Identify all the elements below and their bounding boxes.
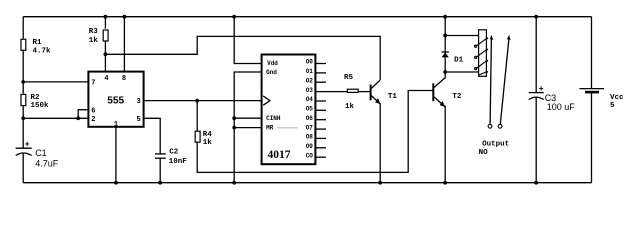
svg-text:C1: C1 <box>35 148 47 158</box>
node T2 emitter ground rail <box>443 181 447 185</box>
wire O0 stub <box>315 63 326 65</box>
node Gnd ground rail <box>232 181 236 185</box>
wire pin2 <box>23 117 88 119</box>
wire O8 stub <box>315 137 326 139</box>
svg-text:R3: R3 <box>89 28 99 36</box>
svg-text:555: 555 <box>107 95 124 106</box>
svg-text:R5: R5 <box>344 74 354 82</box>
wire MR to ground line <box>234 127 261 129</box>
svg-text:R1: R1 <box>33 39 43 47</box>
svg-text:T2: T2 <box>452 93 462 101</box>
svg-text:C2: C2 <box>169 149 179 157</box>
wire C2 to ground rail <box>159 158 161 183</box>
wire O6 stub <box>315 119 326 121</box>
wire pin6 <box>78 110 88 119</box>
wire R3 to pin4 <box>104 41 106 72</box>
svg-text:4: 4 <box>104 75 108 83</box>
capacitor C1 <box>16 141 59 169</box>
wire reset node to T1 collector <box>105 36 380 80</box>
pin clock chevron <box>263 96 270 105</box>
svg-text:1k: 1k <box>89 37 99 45</box>
wire Gnd of 4017 to ground rail <box>234 72 261 183</box>
svg-text:MR: MR <box>266 124 274 131</box>
node coil bottom / T2 collector junction <box>443 70 447 74</box>
wire O9 stub <box>315 147 326 149</box>
node CINH junction <box>232 116 236 120</box>
node C3 ground rail <box>534 181 538 185</box>
wire R2 to C1 <box>22 106 24 148</box>
resistor R1 <box>21 39 51 56</box>
wire O1 stub <box>315 72 326 74</box>
svg-text:4.7uF: 4.7uF <box>35 159 59 169</box>
svg-text:4017: 4017 <box>268 149 291 161</box>
wire R5 to T1 base <box>359 91 370 93</box>
svg-text:8: 8 <box>122 75 126 83</box>
node R1/R2/pin7 junction <box>21 80 25 84</box>
relay coil K1 <box>474 30 488 77</box>
svg-text:O1: O1 <box>306 68 314 75</box>
wire CINH to ground line <box>234 117 261 119</box>
op-amp U2 4017 counter box <box>262 55 316 165</box>
resistor R5 <box>344 74 358 111</box>
node C2 ground rail <box>158 181 162 185</box>
wire O5 stub <box>315 109 326 111</box>
node pin6 branch <box>76 116 80 120</box>
svg-text:O0: O0 <box>306 59 314 66</box>
wire relay/diode branch from top rail <box>444 17 446 72</box>
node MR junction <box>232 126 236 130</box>
capacitor C3 <box>529 17 576 183</box>
wire O2 stub <box>315 81 326 83</box>
resistor R3 <box>89 17 108 46</box>
svg-text:2: 2 <box>91 116 95 124</box>
node pin8 top rail <box>123 15 127 19</box>
battery Vcc <box>580 17 625 183</box>
svg-text:R4: R4 <box>203 131 213 139</box>
wire left column top segment <box>22 17 24 39</box>
svg-text:CINH: CINH <box>266 115 281 122</box>
svg-text:Output: Output <box>482 141 509 149</box>
svg-text:O2: O2 <box>306 77 314 84</box>
svg-text:3: 3 <box>137 98 141 106</box>
node Vdd top rail <box>232 15 236 19</box>
wire top supply rail <box>23 16 591 18</box>
relay contact right (blade) <box>498 35 510 128</box>
node R3/pin4/reset junction <box>104 52 108 56</box>
wire coil bottom <box>445 71 479 73</box>
node Output NO label <box>479 141 510 157</box>
svg-text:T1: T1 <box>388 93 398 101</box>
node coil top junction <box>443 34 447 38</box>
wire pin1 to ground <box>115 127 117 183</box>
svg-text:1k: 1k <box>203 139 213 147</box>
wire T2 collector up <box>444 72 446 79</box>
wire Vdd supply to 4017 <box>234 17 261 64</box>
wire T2 emitter to ground <box>444 106 446 183</box>
svg-text:6: 6 <box>91 108 95 116</box>
svg-text:1k: 1k <box>345 103 355 111</box>
wire R4 to T2 base <box>197 91 432 173</box>
svg-text:O4: O4 <box>306 96 314 103</box>
op-amp U1 555 timer box <box>88 72 143 129</box>
svg-text:O7: O7 <box>306 124 314 131</box>
wire pin8 to rail <box>123 17 125 72</box>
svg-text:5: 5 <box>610 102 615 110</box>
node R4 branch on pin3 line <box>195 99 199 103</box>
wire coil top <box>445 35 479 37</box>
wire pin5 to C2 <box>144 118 161 154</box>
svg-text:NO: NO <box>479 149 489 157</box>
wire bottom ground rail <box>23 182 591 184</box>
wire O7 stub <box>315 128 326 130</box>
node R2/C1/pin2 junction <box>21 116 25 120</box>
diode D1 <box>442 52 464 65</box>
capacitor C2 <box>155 149 187 167</box>
svg-text:CO: CO <box>306 152 314 159</box>
transistor T2 <box>433 78 462 107</box>
resistor R2 <box>21 94 49 110</box>
wire O4 stub <box>315 100 326 102</box>
node pin1 ground rail <box>114 181 118 185</box>
svg-text:Vcc: Vcc <box>610 94 624 102</box>
svg-text:O5: O5 <box>306 106 314 113</box>
svg-text:10nF: 10nF <box>169 158 188 166</box>
svg-text:Gnd: Gnd <box>266 69 277 76</box>
svg-text:100 uF: 100 uF <box>547 102 576 112</box>
svg-text:Vdd: Vdd <box>267 60 278 67</box>
svg-text:7: 7 <box>91 79 95 87</box>
wire pin7 <box>23 81 88 83</box>
wire T1 emitter to ground <box>379 103 381 183</box>
wire CO stub <box>315 156 326 158</box>
wire pin3 output to 4017 clock <box>144 100 262 102</box>
svg-text:+: + <box>25 141 30 150</box>
svg-text:O8: O8 <box>306 134 314 141</box>
svg-text:+: + <box>539 85 544 94</box>
node relay branch top rail <box>443 15 447 19</box>
node T1 emitter ground rail <box>378 181 382 185</box>
svg-text:D1: D1 <box>454 57 464 65</box>
wire R1 to R2 <box>22 51 24 94</box>
svg-text:4.7k: 4.7k <box>33 48 52 56</box>
wire C1 to ground rail <box>22 153 24 182</box>
node C3 top rail <box>534 15 538 19</box>
svg-text:R2: R2 <box>31 94 41 102</box>
svg-text:5: 5 <box>137 116 141 124</box>
relay contact left <box>488 35 493 128</box>
node R3 top rail <box>104 15 108 19</box>
svg-text:O3: O3 <box>306 87 314 94</box>
svg-text:150k: 150k <box>31 102 50 110</box>
transistor T1 <box>371 80 398 104</box>
resistor R4 <box>195 101 212 148</box>
svg-text:O6: O6 <box>306 115 314 122</box>
svg-text:O9: O9 <box>306 143 314 150</box>
wire O3 to R5 <box>315 91 347 93</box>
